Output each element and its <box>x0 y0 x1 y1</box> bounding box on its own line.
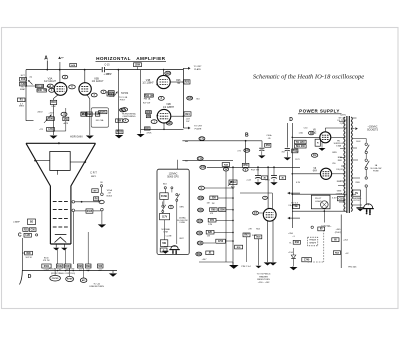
svg-text:R99: R99 <box>86 266 91 268</box>
wire switch <box>365 154 367 159</box>
ground under C41 <box>261 151 263 155</box>
choke 1820 <box>255 235 262 239</box>
junction dot V2B bottom <box>163 129 165 131</box>
filter cap 2 value box <box>280 176 286 180</box>
bleeder resistor row box3 <box>65 264 72 268</box>
svg-text:LINE: LINE <box>164 231 169 233</box>
svg-text:1W: 1W <box>207 236 210 238</box>
svg-text:C: C <box>18 233 22 239</box>
svg-text:PLATE: PLATE <box>195 127 202 130</box>
pin dot V1B left <box>156 84 158 86</box>
capacitor C5 <box>101 67 103 72</box>
wire to sockets arrow <box>352 128 355 130</box>
resistor R57 <box>292 149 298 153</box>
svg-text:CUTOUT: CUTOUT <box>353 200 362 202</box>
inset right switch contacts <box>176 194 178 196</box>
svg-text:+C45: +C45 <box>265 179 270 181</box>
svg-text:1V2: 1V2 <box>312 132 317 134</box>
wire R6 down <box>101 187 103 193</box>
crt base bottom <box>50 243 71 245</box>
svg-text:(5): (5) <box>30 76 33 78</box>
svg-text:R23: R23 <box>185 82 190 84</box>
filter cap 1 stub <box>257 167 259 175</box>
tube V7 feed <box>267 167 269 208</box>
svg-text:8&6: 8&6 <box>167 123 172 125</box>
wire V1B top riser <box>163 70 165 76</box>
wire stub above inset <box>177 160 179 169</box>
wire to funnel <box>26 120 34 122</box>
wire focus net <box>75 210 86 212</box>
wire primary low taps <box>338 185 345 187</box>
svg-text:R90: R90 <box>26 253 31 255</box>
svg-text:C36: C36 <box>198 210 203 212</box>
resistor R17 220K <box>46 117 54 121</box>
pentode V1B upper output <box>157 75 170 88</box>
svg-text:R19: R19 <box>108 94 113 96</box>
svg-text:TO CRT: TO CRT <box>193 66 202 68</box>
inset extra terminals <box>171 187 173 189</box>
inset wire join a <box>164 189 166 193</box>
switch contact a <box>365 143 367 145</box>
resistor stub right <box>95 112 99 116</box>
arrow to crt plate bottom <box>183 127 189 129</box>
resistor R19 4.7K <box>47 128 55 132</box>
pin dot V2B left <box>157 115 159 117</box>
triode V3B <box>79 83 91 95</box>
resistor cluster mid <box>144 94 153 97</box>
junction dots left rows <box>232 187 234 189</box>
row resistor 220K <box>198 208 204 212</box>
svg-text:162 W: 162 W <box>25 257 32 259</box>
inset terminal <box>164 187 166 189</box>
oval C28 <box>244 149 250 153</box>
svg-text:D: D <box>28 274 32 280</box>
svg-text:C(RY): C(RY) <box>340 114 346 116</box>
svg-text:R18: R18 <box>51 102 56 104</box>
svg-text:TO +A: TO +A <box>93 282 100 285</box>
ground centering column <box>115 135 123 138</box>
filter cap 1 value box <box>262 176 268 180</box>
svg-text:C-LINE: C-LINE <box>166 236 173 238</box>
svg-text:R71: R71 <box>210 220 215 222</box>
wire drop crt right <box>65 249 67 265</box>
resistor R13 <box>20 78 27 82</box>
svg-text:R15 1M: R15 1M <box>35 86 43 88</box>
svg-text:PIN 3&5: PIN 3&5 <box>348 267 357 269</box>
rectifier tube V8 <box>320 132 331 143</box>
switch contact c <box>365 177 367 179</box>
inset ground near plug <box>162 250 168 252</box>
pilot light box <box>311 195 330 209</box>
capacitor C52 <box>337 197 343 201</box>
filter cap 1 ground <box>257 179 259 182</box>
svg-text:GRN: GRN <box>179 207 184 209</box>
inset oval <box>169 205 174 208</box>
potentiometer R17 arrow <box>44 115 52 124</box>
pin oval V7 <box>253 211 259 215</box>
svg-text:82K: 82K <box>208 232 213 234</box>
wire left rail <box>25 70 27 121</box>
svg-text:500K: 500K <box>252 235 258 237</box>
svg-text:~150VAC: ~150VAC <box>368 125 378 128</box>
svg-text:1/2 12BH7: 1/2 12BH7 <box>142 82 154 85</box>
pilot lamp <box>321 201 329 209</box>
junction dot on crt face <box>58 142 60 144</box>
wire V3B plate riser <box>84 70 86 83</box>
svg-text:C35: C35 <box>199 198 204 200</box>
ground <box>86 136 94 139</box>
svg-text:R56: R56 <box>266 145 271 147</box>
deflection plate box <box>50 152 70 171</box>
wire grid stub <box>26 85 36 87</box>
svg-text:R102: R102 <box>57 266 63 268</box>
tube V7 rectifier <box>263 208 276 221</box>
focus pot oval <box>66 276 74 281</box>
resistor R16 220K <box>37 89 46 92</box>
oval under R44 <box>223 168 228 171</box>
wire V6 left <box>292 173 320 175</box>
oval pair <box>122 108 128 112</box>
svg-text:100K: 100K <box>146 112 152 114</box>
svg-text:A-M: A-M <box>71 64 75 67</box>
wire V3A cathode <box>54 95 59 101</box>
svg-text:LINE RETURN: LINE RETURN <box>89 286 104 288</box>
resistor 60b <box>332 238 339 242</box>
switch contact b <box>365 159 367 161</box>
label pin dot <box>25 85 27 87</box>
ground big mid <box>232 262 234 265</box>
resistor R23 <box>184 80 190 84</box>
svg-text:GRN: GRN <box>337 191 342 193</box>
svg-text:INTEN: INTEN <box>67 279 73 281</box>
svg-text:PIN 2 3-4: PIN 2 3-4 <box>241 266 251 268</box>
inset wire join b <box>163 199 165 205</box>
transformer top lead <box>352 117 357 119</box>
crt cathode plate <box>55 234 67 236</box>
wire drop at 262 <box>261 141 263 148</box>
junction <box>46 69 48 71</box>
svg-text:R68: R68 <box>211 209 216 211</box>
astig pot oval <box>80 278 87 282</box>
wire deflection left <box>35 160 50 162</box>
junction dots column <box>183 81 185 83</box>
wire B drop <box>245 141 247 164</box>
lamp terminal top <box>101 193 104 196</box>
svg-text:TH: TH <box>355 193 358 195</box>
svg-text:C26: C26 <box>188 98 193 100</box>
wire pin3-5 drop <box>340 215 342 269</box>
svg-text:5 MA: 5 MA <box>336 145 341 148</box>
svg-text:1W: 1W <box>212 203 215 205</box>
ac interlock inset box <box>157 169 189 254</box>
svg-text:FUSE: FUSE <box>373 171 379 173</box>
svg-text:47K 1W: 47K 1W <box>43 260 50 262</box>
pin 3 oval <box>61 112 67 116</box>
resistor R18 3.3K <box>50 100 56 104</box>
resistor R56 <box>265 143 271 147</box>
wire bus tail curve <box>20 271 23 285</box>
svg-text:B: B <box>245 132 249 138</box>
svg-text:1/2 12AU7: 1/2 12AU7 <box>44 80 56 83</box>
svg-text:FUSE: FUSE <box>161 196 168 198</box>
filter cap 2 stub <box>273 167 275 175</box>
terminal dot <box>36 234 38 236</box>
wire to thermal <box>365 170 367 177</box>
svg-text:HEATER: HEATER <box>259 275 268 278</box>
wire bottom left stub <box>199 261 233 263</box>
wire crt plate column <box>182 68 184 128</box>
svg-text:V15A: V15A <box>107 189 113 192</box>
wire R44 drop <box>225 171 227 262</box>
crt grid dashes row4 <box>53 226 57 228</box>
wire primary top <box>339 121 345 123</box>
coupling cap C30 oval <box>197 157 203 161</box>
wire drop from focus net <box>87 232 89 264</box>
ps mid wire <box>292 193 346 195</box>
svg-text:BLK: BLK <box>163 184 168 186</box>
svg-text:R103: R103 <box>65 266 71 268</box>
inset wire bottom h <box>164 245 177 247</box>
ground under C42 <box>286 151 288 157</box>
svg-text:470K: 470K <box>146 132 152 134</box>
bleeder resistor row box5 <box>86 264 92 268</box>
ground mid rail <box>137 134 145 137</box>
wire heater riser <box>59 62 61 83</box>
arrow to crt plate top <box>183 67 189 69</box>
pin 7 oval on V7 feed <box>263 196 268 199</box>
pin 6 <box>62 75 68 79</box>
ground <box>50 136 58 139</box>
row C34 4700 <box>197 241 203 245</box>
svg-text:PIN 1A: PIN 1A <box>144 97 151 100</box>
transformer T1 core <box>346 116 348 213</box>
svg-text:+C44: +C44 <box>246 179 251 181</box>
svg-text:1.2K: 1.2K <box>25 235 30 237</box>
pin 3 <box>49 88 55 92</box>
svg-text:RESISTORS: RESISTORS <box>257 279 270 281</box>
ps bottom terminal <box>311 226 313 228</box>
inset wire join d <box>164 220 166 240</box>
svg-text:BRN: BRN <box>332 152 337 154</box>
resistor R20 15K <box>63 117 69 121</box>
svg-text:C31: C31 <box>200 138 205 140</box>
svg-text:ADJ: ADJ <box>66 269 69 272</box>
svg-text:BULB: BULB <box>107 195 113 197</box>
resistor R50 filter <box>242 163 249 167</box>
svg-text:15K: 15K <box>64 119 69 121</box>
pin 8 oval <box>158 96 164 100</box>
svg-text:+32V: +32V <box>48 113 54 115</box>
svg-text:2.2M: 2.2M <box>208 224 213 226</box>
wire drop crt left <box>57 249 59 265</box>
svg-text:C33: C33 <box>201 167 206 169</box>
wire V6 plate to primary <box>332 173 346 175</box>
svg-text:500MA: 500MA <box>336 192 343 195</box>
crt grid dashes row2 <box>53 209 57 211</box>
svg-text:6: 6 <box>103 91 104 93</box>
ground ps right <box>359 196 361 207</box>
inset plug <box>171 246 179 250</box>
svg-text:R30 1M: R30 1M <box>145 95 153 97</box>
svg-text:+345: +345 <box>336 229 342 231</box>
oval ps <box>309 131 315 135</box>
svg-text:1W: 1W <box>225 169 228 171</box>
svg-text:PIN 7: PIN 7 <box>120 99 126 101</box>
resistor R29 100K <box>146 111 152 114</box>
svg-text:SWAY: SWAY <box>20 88 26 91</box>
inset fuse box <box>160 193 168 200</box>
panel box horiz gain control <box>91 108 108 127</box>
resistor on pin35 line <box>333 251 340 255</box>
ps boxes to 115v <box>295 140 307 144</box>
svg-text:1M: 1M <box>147 116 150 118</box>
resistor R1 4.7 MEG <box>18 98 26 102</box>
wire V7 cathode left <box>267 221 269 262</box>
transformer secondary winding <box>351 117 352 121</box>
svg-text:1/2 12AU7: 1/2 12AU7 <box>92 80 104 83</box>
ps bottom boxes <box>318 227 325 231</box>
row resistor 22K <box>198 196 204 200</box>
svg-text:FILT 7W: FILT 7W <box>251 170 260 172</box>
resistor R67 500K <box>243 233 250 237</box>
pin C17 oval <box>120 108 126 112</box>
svg-text:SO: SO <box>30 222 34 224</box>
ground bus right <box>112 271 114 274</box>
filter cap 1 <box>255 175 261 177</box>
ground lamp <box>98 224 106 227</box>
wire from A <box>46 61 48 70</box>
inset small box <box>160 240 167 247</box>
svg-text:R150: R150 <box>117 132 123 134</box>
resistor R105 47K <box>86 209 93 213</box>
svg-text:HOR GAIN: HOR GAIN <box>70 135 83 138</box>
ground V8 <box>321 143 323 148</box>
inset right wire <box>176 201 178 244</box>
wire sec right <box>352 138 367 140</box>
pentode V2B lower output <box>157 109 171 123</box>
wire V7 cathode right <box>272 221 274 262</box>
svg-text:R24: R24 <box>185 113 190 116</box>
wire V3B cathode <box>87 94 90 135</box>
svg-text:A-75: A-75 <box>63 122 68 125</box>
coupling cap C31 oval <box>199 137 205 141</box>
ground ps bottom <box>293 259 295 267</box>
oval 6b and resistor R16 right <box>101 90 106 93</box>
wire V8 left <box>292 136 320 138</box>
svg-text:SEL 230: SEL 230 <box>296 146 306 148</box>
svg-text:1&6: 1&6 <box>166 73 171 75</box>
svg-text:+350: +350 <box>288 233 294 235</box>
svg-text:50K: 50K <box>117 120 122 122</box>
wire secondary taps right <box>351 147 357 149</box>
oval under <box>99 200 104 203</box>
inset wire join c <box>162 212 164 213</box>
svg-text:6.3V: 6.3V <box>332 197 337 199</box>
wire main B+ rail <box>26 69 102 71</box>
svg-text:1.5A: 1.5A <box>298 132 303 135</box>
svg-text:CENTERING: CENTERING <box>123 116 136 118</box>
pin 2 oval mid <box>69 85 76 89</box>
row resistor small <box>197 231 203 235</box>
bleeder resistor row box1 <box>42 264 51 268</box>
svg-text:20K/2: 20K/2 <box>37 111 43 113</box>
svg-text:R105: R105 <box>87 211 93 213</box>
arrow choke bottom <box>255 266 261 268</box>
wire plug top lead <box>367 204 369 206</box>
svg-text:C-15: C-15 <box>105 64 111 66</box>
wire centering column <box>117 70 119 135</box>
svg-text:C50: C50 <box>31 229 36 231</box>
pin 1&6 oval <box>165 71 171 75</box>
sw box ps left <box>293 204 300 208</box>
svg-text:2-AMP: 2-AMP <box>13 221 20 224</box>
primary lead stubs <box>340 148 345 150</box>
wire mid rail riser <box>140 70 142 134</box>
svg-text:117V: 117V <box>295 159 300 161</box>
diode symbol <box>293 248 295 255</box>
inset switch <box>162 202 164 206</box>
capacitor C42 <box>285 147 290 149</box>
svg-text:NO CAL: NO CAL <box>96 119 105 122</box>
arrow out lower <box>288 217 290 220</box>
wire left bottom rail <box>21 238 23 271</box>
wire pilot drop <box>323 209 325 222</box>
svg-text:C52: C52 <box>338 199 343 201</box>
line cord plug <box>364 204 373 209</box>
ps resistor 5600 <box>315 139 320 146</box>
wire heater bus <box>240 192 272 194</box>
svg-text:RED: RED <box>356 182 361 184</box>
pin 7 <box>91 93 97 97</box>
ps bottom wire <box>292 210 346 212</box>
wire cathode bottom <box>47 130 66 132</box>
filter cap 2 ground <box>273 179 275 182</box>
svg-text:+347: +347 <box>202 259 208 261</box>
crt grid dashes row3 <box>53 218 57 220</box>
resistor INT box <box>92 189 98 193</box>
bleeder resistor row box2 <box>56 264 63 268</box>
svg-text:117V 60~: 117V 60~ <box>321 225 332 228</box>
filter cap 2 <box>271 175 277 177</box>
svg-text:117V: 117V <box>162 216 168 218</box>
triode V3A <box>54 83 67 96</box>
resistor R19 pot H-position <box>107 92 113 96</box>
oval under R50 <box>243 168 248 171</box>
svg-text:D: D <box>289 117 293 123</box>
crt heater filament <box>55 237 67 242</box>
resistor 100K b <box>146 115 150 118</box>
arrow out to filaments <box>288 192 290 195</box>
svg-text:FUSE: FUSE <box>180 222 186 224</box>
svg-text:C740: C740 <box>304 259 310 262</box>
resistor R41A vertical pot <box>232 167 234 265</box>
wire V8 anode top <box>324 128 326 132</box>
svg-text:56K: 56K <box>95 114 100 116</box>
intensity pot oval <box>50 275 61 281</box>
svg-text:22K: 22K <box>212 198 217 200</box>
svg-text:5BP1: 5BP1 <box>91 176 97 178</box>
wire V2B bottom <box>163 123 165 129</box>
junction dots on bus <box>57 270 59 272</box>
inset extra box <box>160 248 167 252</box>
svg-text:+150 - +162: +150 - +162 <box>258 282 271 284</box>
crt heater lead right <box>63 244 65 248</box>
resistor R22 <box>86 112 92 116</box>
thermal cutout box <box>353 190 361 196</box>
resistor box left of lamp <box>94 197 99 201</box>
capacitor C41 <box>259 147 264 149</box>
box A-MID <box>70 63 77 66</box>
